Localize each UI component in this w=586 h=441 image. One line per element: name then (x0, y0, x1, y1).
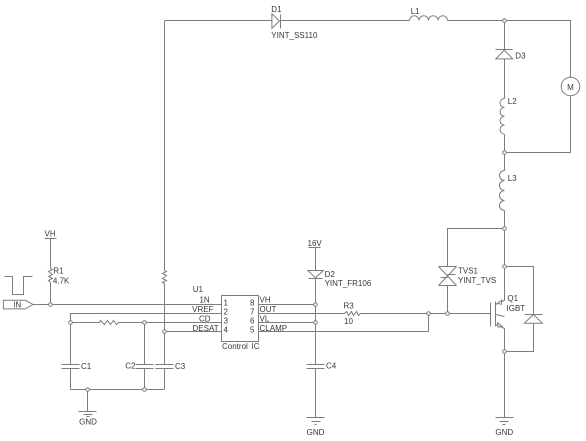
svg-text:4.7K: 4.7K (53, 277, 70, 286)
junction node emitter (503, 350, 507, 354)
svg-text:M: M (567, 83, 574, 92)
wire ground tap (87, 390, 89, 412)
TVS TVS1 (439, 267, 497, 286)
wire C4 to ground (315, 369, 317, 418)
svg-text:8: 8 (250, 298, 255, 307)
resistor R1 (49, 267, 71, 286)
capacitor C2 (125, 361, 153, 370)
junction node C2 top (143, 321, 147, 325)
resistor R3 (344, 302, 361, 326)
wire node to L3 (504, 153, 506, 171)
wire diode to emitter node (505, 324, 534, 352)
wire VL pin 6 (259, 322, 316, 324)
wire left vertical from top rail (164, 21, 166, 271)
svg-text:1N: 1N (199, 295, 209, 304)
wire VH pin 8 (259, 304, 316, 306)
svg-text:DESAT: DESAT (193, 324, 219, 333)
diode D2 (308, 270, 372, 288)
IC U1 (193, 285, 260, 351)
diode free-wheel across Q1 (524, 315, 542, 324)
wire DESAT node to C3 (164, 332, 166, 365)
svg-text:YINT_TVS: YINT_TVS (458, 276, 496, 285)
junction node VREF C1 (69, 321, 73, 325)
svg-text:TVS1: TVS1 (458, 267, 479, 276)
diode D3 (496, 50, 527, 61)
svg-text:D1: D1 (271, 5, 282, 14)
wire node to node (504, 229, 506, 267)
transistor Q1 (491, 267, 526, 352)
svg-text:IGBT: IGBT (507, 304, 526, 313)
junction node ground tap (86, 388, 90, 392)
wire top rail right and down to motor (505, 21, 571, 78)
wire IN to pin 1 (33, 304, 222, 306)
svg-text:GND: GND (307, 428, 325, 437)
wire CLAMP pin 5 loop (259, 314, 429, 332)
svg-text:C3: C3 (175, 362, 186, 371)
svg-text:C4: C4 (326, 362, 337, 371)
power 16V (308, 239, 323, 271)
svg-text:IC: IC (252, 342, 260, 351)
svg-text:CD: CD (199, 314, 211, 323)
wire R1 to input net (50, 283, 52, 305)
wire D2 to VH node (315, 279, 317, 305)
wire resistor to DESAT node (164, 284, 166, 332)
ground right (495, 418, 513, 437)
svg-text:4: 4 (224, 325, 229, 334)
svg-text:GND: GND (79, 418, 97, 427)
svg-text:R3: R3 (344, 302, 355, 311)
wire VL node to C4 (315, 323, 317, 365)
pulse waveform symbol (5, 277, 33, 295)
wire emitter node to ground (504, 352, 506, 418)
svg-text:R1: R1 (53, 267, 64, 276)
junction node IN R1 (49, 303, 53, 307)
svg-text:6: 6 (250, 316, 255, 325)
wire D3 to L2 (504, 59, 506, 99)
svg-text:L3: L3 (508, 174, 517, 183)
wire motor bottom to node (505, 97, 571, 153)
svg-text:D2: D2 (325, 270, 336, 279)
svg-text:Control: Control (222, 342, 248, 351)
svg-text:VREF: VREF (192, 305, 213, 314)
svg-text:5: 5 (250, 325, 255, 334)
svg-text:L2: L2 (508, 97, 517, 106)
svg-text:OUT: OUT (260, 305, 277, 314)
wire resistor to C1 node (71, 322, 100, 324)
wire node to TVS1 (448, 229, 505, 267)
port IN (3, 300, 33, 309)
svg-text:GND: GND (495, 428, 513, 437)
power VH (45, 229, 57, 268)
svg-text:VH: VH (45, 229, 56, 238)
wire DESAT pin 4 (165, 331, 222, 333)
wire L3 to node (504, 211, 506, 229)
junction node VL (314, 321, 318, 325)
junction node gate TVS (446, 312, 450, 316)
wire L1 to node (448, 20, 505, 22)
wire L2 to node (504, 135, 506, 153)
junction node collector (503, 265, 507, 269)
capacitor C4 (307, 362, 337, 371)
motor M (561, 77, 580, 96)
junction node clamp (427, 312, 431, 316)
junction node motor bottom (503, 151, 507, 155)
ground left (79, 412, 98, 427)
resistor on CD net (100, 321, 119, 325)
ground middle (307, 418, 325, 438)
wire bottom rail (71, 389, 165, 391)
svg-text:YINT_FR106: YINT_FR106 (325, 279, 372, 288)
svg-text:C1: C1 (81, 362, 92, 371)
wire R3 to gate (361, 313, 491, 315)
svg-text:C2: C2 (125, 361, 136, 370)
svg-text:VH: VH (260, 295, 271, 304)
wire C1 to bottom rail (70, 369, 72, 390)
svg-text:YINT_SS110: YINT_SS110 (271, 31, 318, 40)
wire node to freewheel diode (505, 267, 534, 315)
svg-text:10: 10 (344, 317, 353, 326)
junction node DESAT (163, 330, 167, 334)
svg-text:2: 2 (224, 307, 229, 316)
junction node VH (314, 303, 318, 307)
wire D1 to L1 (281, 20, 410, 22)
resistor on desat vertical (163, 271, 167, 284)
wire C3 to bottom rail (164, 369, 166, 390)
wire TVS1 to gate net (447, 286, 449, 314)
wire CD pin 3 (119, 322, 222, 324)
svg-text:3: 3 (224, 316, 229, 325)
junction node C2 bottom (143, 388, 147, 392)
svg-text:1: 1 (224, 298, 229, 307)
inductor L2 (500, 97, 517, 134)
wire C2 node down (144, 323, 146, 365)
svg-text:IN: IN (13, 301, 21, 310)
inductor L3 (500, 171, 518, 211)
wire C1 node down (70, 323, 72, 365)
wire C2 to bottom rail (144, 369, 146, 390)
diode D1 (271, 5, 318, 40)
wire node to D3 (504, 21, 506, 50)
wire top rail left (165, 20, 272, 22)
capacitor C3 (156, 362, 186, 371)
svg-text:U1: U1 (193, 285, 204, 294)
junction node L3 bottom (503, 227, 507, 231)
svg-text:Q1: Q1 (507, 294, 518, 303)
inductor L1 (410, 7, 448, 21)
capacitor C1 (62, 362, 92, 371)
wire OUT pin 7 to gate (259, 313, 345, 315)
svg-text:D3: D3 (515, 52, 526, 61)
wire VREF pin 2 (71, 314, 222, 323)
junction node top rail (503, 19, 507, 23)
wire VH node to VL node (315, 305, 317, 323)
svg-text:L1: L1 (411, 7, 420, 16)
svg-text:16V: 16V (308, 239, 323, 248)
svg-text:7: 7 (250, 307, 255, 316)
